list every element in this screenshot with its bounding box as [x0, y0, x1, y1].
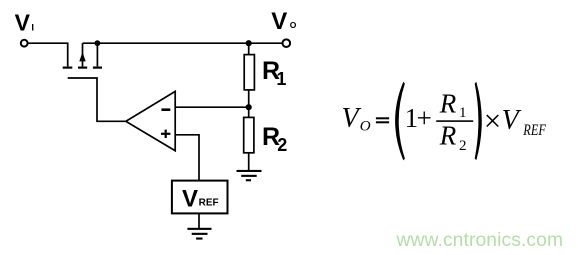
formula VO = (1 + R1/R2) x VREF	[342, 82, 547, 161]
wire drain to output rail	[83, 42, 282, 44]
svg-text:O: O	[360, 118, 371, 134]
svg-text:1: 1	[276, 69, 286, 89]
svg-text:V: V	[15, 9, 31, 35]
svg-text:2: 2	[277, 135, 287, 155]
node VI label	[15, 9, 34, 35]
svg-text:R: R	[439, 89, 457, 119]
svg-text:V: V	[342, 103, 362, 134]
junction feedback node	[246, 104, 252, 110]
svg-text:REF: REF	[199, 198, 219, 209]
svg-text:+: +	[417, 103, 432, 133]
svg-text:×: ×	[484, 103, 501, 138]
svg-text:R: R	[439, 120, 457, 150]
close parenthesis	[475, 82, 482, 160]
drain contact bar	[93, 67, 102, 69]
svg-text:www.cntronics.com: www.cntronics.com	[396, 230, 564, 251]
wire rail to R1	[248, 43, 250, 54]
terminal VI	[21, 40, 28, 47]
wire R2 to ground	[248, 153, 250, 170]
VREF label	[182, 185, 219, 212]
svg-text:V: V	[182, 185, 198, 212]
wire feedback to inverting input	[175, 106, 249, 108]
svg-text:O: O	[290, 20, 297, 30]
op-amp U1 error amplifier	[126, 91, 175, 150]
non-inverting input marker	[161, 130, 170, 138]
open parenthesis	[395, 82, 405, 161]
svg-text:1: 1	[459, 105, 467, 121]
fraction bar	[436, 120, 473, 122]
svg-text:I: I	[31, 23, 34, 34]
source contact bar	[63, 67, 73, 69]
junction output/R1	[246, 40, 252, 46]
ground (VREF)	[187, 228, 211, 240]
inverting input marker	[161, 108, 170, 111]
drain stub	[96, 43, 98, 66]
wire VI to MOSFET source	[28, 43, 67, 66]
svg-text:V: V	[271, 8, 287, 35]
transistor Q1 (PMOS pass element)	[63, 43, 126, 121]
body stub with arrow	[82, 43, 84, 66]
resistor R1	[244, 55, 254, 90]
resistor R2	[244, 117, 254, 152]
gate plate and lead	[68, 78, 126, 121]
junction drain/body	[95, 40, 101, 46]
node VO label	[271, 8, 297, 35]
R1 label	[262, 57, 286, 89]
voltage reference VREF box	[172, 181, 228, 214]
terminal VO	[283, 39, 291, 47]
svg-text:2: 2	[459, 138, 467, 154]
wire VREF to ground	[198, 213, 200, 228]
svg-text:REF: REF	[523, 122, 547, 139]
R2 label	[262, 123, 287, 155]
ground (R2)	[237, 170, 262, 181]
wire R1 to R2	[248, 90, 250, 118]
svg-text:V: V	[502, 105, 522, 136]
wire non-inverting input to VREF	[175, 135, 199, 181]
body contact bar	[78, 67, 87, 69]
